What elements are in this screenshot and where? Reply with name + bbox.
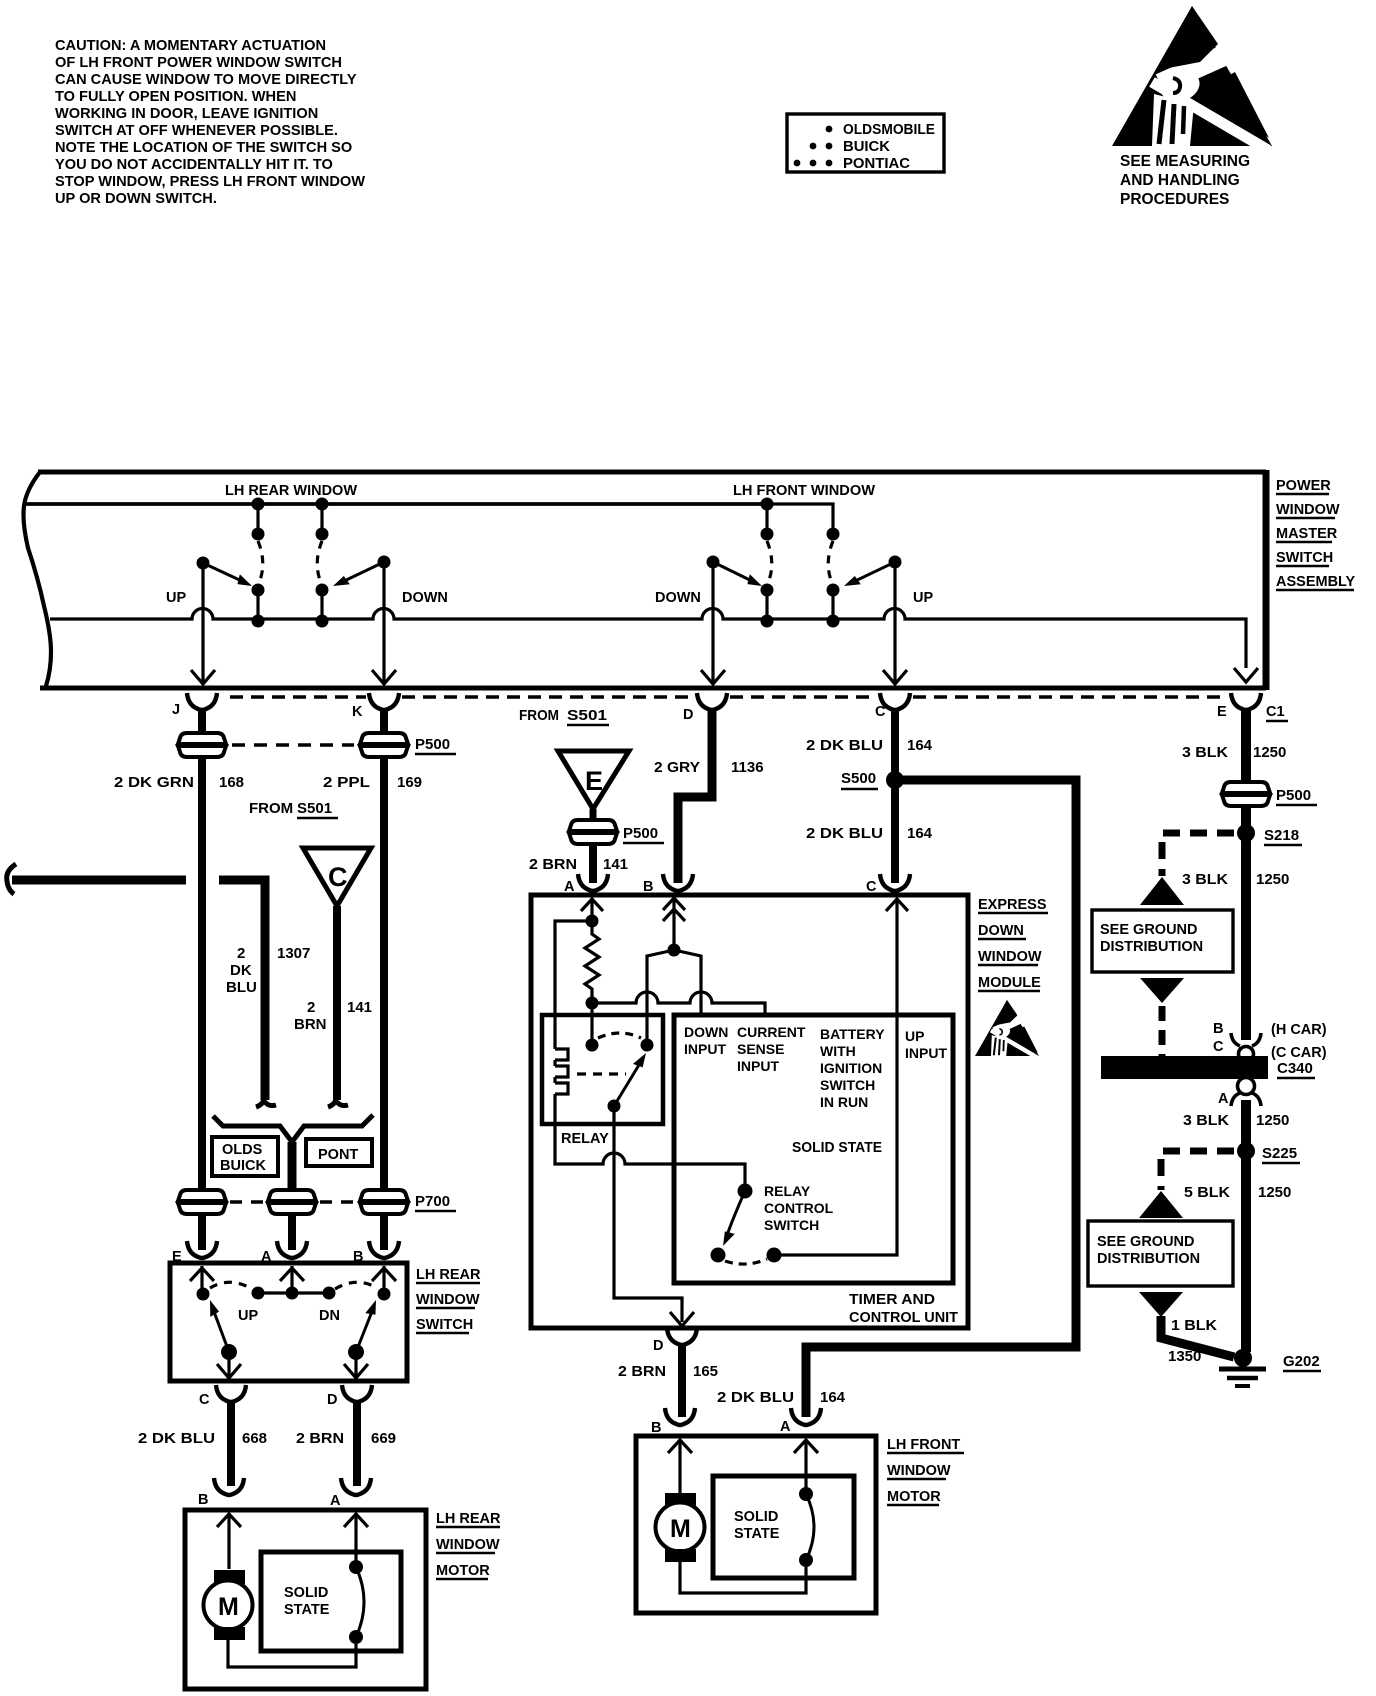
relay travel dashed arc (598, 1033, 641, 1038)
wire 2 PPL (P500 to P700) (380, 757, 388, 1190)
svg-text:1250: 1250 (1256, 1112, 1289, 1129)
front motor internal switch (799, 1487, 814, 1567)
module input arrow B (double) (663, 898, 685, 948)
svg-text:C340: C340 (1277, 1060, 1313, 1077)
svg-text:SENSE: SENSE (737, 1041, 784, 1057)
continuation triangle (to ground distribution 1) (1140, 877, 1184, 905)
box label OLDS BUICK (212, 1137, 278, 1176)
svg-text:669: 669 (371, 1430, 396, 1447)
label 2 DK GRN 168 (114, 774, 244, 791)
svg-text:3 BLK: 3 BLK (1182, 744, 1228, 761)
wiper arm D (348, 1298, 380, 1360)
svg-text:S501: S501 (567, 707, 607, 724)
svg-text:WINDOW: WINDOW (416, 1292, 480, 1308)
LH front window motor box (636, 1436, 876, 1613)
svg-text:2 GRY: 2 GRY (654, 759, 700, 776)
LH rear window switch UP contact set (252, 498, 265, 628)
LH rear UP wiper arm (197, 557, 255, 591)
svg-text:INPUT: INPUT (905, 1045, 947, 1061)
connector P700 on A wire (268, 1190, 316, 1214)
svg-text:PONT: PONT (318, 1147, 358, 1163)
label P500 (415, 736, 456, 754)
wire 2 PPL 169 (K to P500) (380, 708, 388, 735)
svg-text:UP OR DOWN SWITCH.: UP OR DOWN SWITCH. (55, 191, 217, 207)
svg-text:G202: G202 (1283, 1353, 1320, 1370)
svg-text:2: 2 (237, 945, 245, 962)
svg-text:EXPRESS: EXPRESS (978, 897, 1047, 913)
svg-text:WINDOW: WINDOW (1276, 502, 1340, 518)
label CURRENT SENSE INPUT (737, 1024, 806, 1074)
LH rear window switch box (170, 1263, 407, 1381)
solid state box (rear motor) (261, 1552, 401, 1651)
continuation triangle (to ground distribution 2) (1139, 1191, 1183, 1218)
front motor input arrow A (794, 1439, 818, 1488)
solid state box (front motor) (713, 1476, 854, 1578)
label C1 (1266, 704, 1288, 721)
svg-text:P500: P500 (415, 736, 450, 753)
svg-text:P700: P700 (415, 1193, 450, 1210)
svg-text:E: E (585, 766, 603, 796)
label B (H CAR) (1213, 1021, 1327, 1038)
rear motor internal switch (349, 1560, 364, 1644)
splice output wire (288, 1142, 297, 1190)
switch input arrow A (280, 1266, 304, 1290)
switch input arrow B (372, 1266, 396, 1290)
svg-text:2 BRN: 2 BRN (618, 1363, 666, 1380)
wire from front UP wiper to terminal C (883, 562, 907, 684)
wire B to relay contact (647, 950, 674, 1045)
lower bus wire with hops (50, 609, 1246, 669)
svg-text:BLU: BLU (226, 979, 257, 996)
svg-text:DN: DN (319, 1308, 340, 1324)
svg-text:P500: P500 (623, 825, 658, 842)
terminal A (rear motor) (341, 1478, 371, 1495)
svg-text:M: M (218, 1593, 239, 1621)
ESD symbol (module) (975, 1000, 1039, 1058)
terminal B (front motor) (665, 1408, 695, 1425)
label FROM S501 (left) (249, 800, 338, 818)
label 3 BLK 1250 (below C340) (1183, 1112, 1289, 1129)
svg-text:CURRENT: CURRENT (737, 1024, 806, 1040)
label 2 DK BLU (1307 wire) (226, 945, 257, 996)
label POWER WINDOW MASTER SWITCH ASSEMBLY (1276, 478, 1356, 590)
wire 141 from triangle C (333, 906, 341, 1100)
label FROM S501 (top middle) (519, 707, 609, 725)
svg-text:SOLID: SOLID (284, 1585, 328, 1601)
connector C340 bulkhead bar (1101, 1056, 1268, 1079)
svg-text:BUICK: BUICK (843, 139, 891, 155)
svg-text:S501: S501 (297, 800, 332, 817)
LH front UP wiper arm (842, 556, 901, 591)
svg-text:(C CAR): (C CAR) (1271, 1045, 1327, 1061)
wire 2 GRY 1136 (D to module B) (678, 708, 712, 883)
svg-text:2 BRN: 2 BRN (529, 856, 577, 873)
front motor return wire (680, 1562, 806, 1593)
wire to switch terminal E (198, 1214, 206, 1250)
connector P500 on K wire (360, 733, 408, 757)
label P500 (right) (1276, 787, 1317, 805)
svg-text:WORKING IN DOOR, LEAVE IGNITIO: WORKING IN DOOR, LEAVE IGNITION (55, 106, 318, 122)
wire 2 BRN 141 to module A (589, 844, 597, 883)
svg-text:BATTERY: BATTERY (820, 1026, 885, 1042)
wire 5 BLK (S225 to ground) (1241, 1151, 1251, 1352)
switch output arrow C (217, 1352, 241, 1378)
svg-text:ASSEMBLY: ASSEMBLY (1276, 574, 1356, 590)
svg-text:C: C (875, 704, 886, 720)
terminal K (369, 693, 399, 710)
svg-text:DK: DK (230, 962, 252, 979)
contact node E (197, 1288, 210, 1301)
svg-text:164: 164 (907, 737, 933, 754)
svg-text:2 PPL: 2 PPL (323, 774, 370, 791)
connector P500 on J wire (178, 733, 226, 757)
connector P500 on 141 wire (569, 820, 617, 844)
svg-text:BUICK: BUICK (220, 1158, 266, 1174)
wire P500 to S218 (1241, 806, 1251, 1040)
svg-text:OLDS: OLDS (222, 1142, 263, 1158)
svg-text:OF LH FRONT POWER WINDOW SWITC: OF LH FRONT POWER WINDOW SWITCH (55, 55, 342, 71)
relay box (542, 1015, 663, 1124)
svg-text:STOP WINDOW, PRESS LH FRONT WI: STOP WINDOW, PRESS LH FRONT WINDOW (55, 174, 365, 190)
wire end hook 141 (328, 1094, 348, 1107)
svg-text:P500: P500 (1276, 787, 1311, 804)
current sense wire with hops (592, 992, 765, 1015)
label LH REAR WINDOW SWITCH (416, 1267, 481, 1333)
wire 2 BRN 165 (678, 1343, 686, 1417)
svg-text:2 DK BLU: 2 DK BLU (717, 1389, 794, 1406)
motor input arrow B (217, 1513, 241, 1569)
svg-text:IN RUN: IN RUN (820, 1094, 868, 1110)
feed wire with arrow (left) (7, 864, 186, 894)
svg-text:OLDSMOBILE: OLDSMOBILE (843, 122, 935, 138)
terminal D (rear switch out) (342, 1385, 372, 1402)
label 2 DK BLU 164 (lower) (806, 825, 933, 842)
svg-text:J: J (172, 702, 180, 718)
svg-text:PROCEDURES: PROCEDURES (1120, 191, 1229, 208)
svg-text:SWITCH AT OFF WHENEVER POSSIBL: SWITCH AT OFF WHENEVER POSSIBLE. (55, 123, 338, 139)
label 2 BRN 165 (618, 1363, 718, 1380)
jumper wire LH front (767, 504, 833, 532)
svg-text:3 BLK: 3 BLK (1182, 871, 1228, 888)
svg-text:1307: 1307 (277, 945, 310, 962)
svg-text:2: 2 (307, 999, 315, 1016)
svg-text:UP: UP (913, 590, 933, 606)
svg-text:UP: UP (166, 590, 186, 606)
svg-text:A: A (1218, 1091, 1229, 1107)
svg-text:1136: 1136 (731, 759, 764, 776)
svg-text:CONTROL: CONTROL (764, 1200, 834, 1216)
power window master switch assembly box (24, 470, 1267, 690)
svg-text:LH FRONT WINDOW: LH FRONT WINDOW (733, 483, 875, 499)
triangle connector C (303, 848, 371, 906)
wire 1307 horizontal segment (219, 880, 265, 1100)
svg-text:AND HANDLING: AND HANDLING (1120, 172, 1240, 189)
label 2 BRN 669 (296, 1430, 396, 1447)
terminal D (module out) (667, 1328, 697, 1345)
splice S225 (1237, 1142, 1300, 1163)
svg-text:2 BRN: 2 BRN (296, 1430, 344, 1447)
dashed branch wire from S225 (1161, 1151, 1234, 1190)
see ground distribution box 2 (1088, 1221, 1233, 1286)
front motor input arrow B (668, 1439, 692, 1493)
label 2 GRY 1136 (654, 759, 764, 776)
terminal B (module) (663, 874, 693, 891)
svg-text:5 BLK: 5 BLK (1184, 1184, 1230, 1201)
svg-text:164: 164 (820, 1389, 846, 1406)
resistor (current sense shunt) (585, 921, 599, 1003)
svg-text:WITH: WITH (820, 1043, 856, 1059)
express down window module box (531, 895, 968, 1328)
wire relay coil to control switch (555, 1124, 745, 1184)
svg-text:1250: 1250 (1256, 871, 1289, 888)
caution note text (55, 38, 365, 207)
svg-text:2 DK BLU: 2 DK BLU (806, 737, 883, 754)
svg-text:LH REAR: LH REAR (436, 1511, 501, 1527)
svg-text:D: D (653, 1338, 663, 1354)
svg-text:SEE MEASURING: SEE MEASURING (1120, 153, 1250, 170)
legend box with make dots (787, 114, 944, 172)
wire from triangle E to P500 (590, 809, 597, 822)
solid state inner box (674, 1015, 953, 1283)
LH rear DOWN wiper arm (331, 556, 390, 591)
relay coil dashed link (577, 1072, 626, 1075)
svg-text:2 DK BLU: 2 DK BLU (806, 825, 883, 842)
terminal E (rear switch) (187, 1241, 217, 1258)
svg-text:1250: 1250 (1253, 744, 1286, 761)
LH rear window motor box (185, 1510, 426, 1689)
module input arrow A (581, 898, 603, 921)
svg-text:K: K (352, 704, 363, 720)
svg-text:169: 169 (397, 774, 422, 791)
see ground distribution box 1 (1092, 910, 1233, 972)
switch output arrow D (344, 1352, 368, 1378)
connector P500 on ground wire (1222, 782, 1270, 806)
svg-text:S218: S218 (1264, 827, 1299, 844)
svg-text:WINDOW: WINDOW (978, 949, 1042, 965)
label 3 BLK 1250 (branch) (1182, 871, 1289, 888)
wire 2 DK BLU 164 (C to module C) (891, 708, 899, 883)
splice brace joining 1307 and 141 (213, 1115, 373, 1142)
svg-text:C: C (1213, 1039, 1224, 1055)
LH front DOWN wiper arm (707, 556, 765, 591)
wire resistor to relay fixed contact (590, 1003, 593, 1045)
svg-text:MOTOR: MOTOR (887, 1489, 941, 1505)
svg-text:C1: C1 (1266, 704, 1285, 720)
splice S218 (1237, 824, 1302, 845)
wire S500 branch to front motor A (806, 780, 1076, 1417)
dashed branch wire from S218 (1162, 833, 1234, 876)
svg-text:DOWN: DOWN (655, 590, 701, 606)
svg-text:LH FRONT: LH FRONT (887, 1437, 960, 1453)
svg-text:SWITCH: SWITCH (416, 1317, 473, 1333)
svg-text:INPUT: INPUT (737, 1058, 779, 1074)
svg-text:2 DK BLU: 2 DK BLU (138, 1430, 215, 1447)
label BATTERY WITH IGNITION SWITCH IN RUN (820, 1026, 885, 1110)
wire A to relay coil (555, 921, 592, 1049)
relay coil (555, 1049, 568, 1124)
terminal E (1231, 693, 1261, 710)
svg-text:164: 164 (907, 825, 933, 842)
label 5 BLK 1250 (1184, 1184, 1291, 1201)
svg-text:1 BLK: 1 BLK (1171, 1317, 1217, 1334)
connector P700 on B wire (360, 1190, 408, 1214)
svg-text:165: 165 (693, 1363, 718, 1380)
svg-text:CAUTION: A MOMENTARY ACTUATION: CAUTION: A MOMENTARY ACTUATION (55, 38, 326, 54)
svg-text:PONTIAC: PONTIAC (843, 156, 911, 172)
relay moving contact (641, 1039, 654, 1052)
svg-text:D: D (683, 707, 693, 723)
svg-text:SOLID: SOLID (734, 1509, 778, 1525)
svg-text:E: E (1217, 704, 1227, 720)
wire end hook 1307 (256, 1094, 276, 1107)
svg-text:YOU DO NOT ACCIDENTALLY HIT IT: YOU DO NOT ACCIDENTALLY HIT IT. TO (55, 157, 333, 173)
arrow on bus wire to terminal E (1234, 668, 1258, 682)
label 2 BRN 141 (module A) (529, 856, 628, 873)
wire 2 DK GRN 168 (J to P500) (198, 708, 206, 735)
svg-text:SEE GROUND: SEE GROUND (1100, 922, 1198, 938)
LH rear window switch DOWN contact set (316, 498, 329, 628)
rear motor return wire (228, 1640, 356, 1667)
dashed links P700 (230, 1200, 356, 1204)
ESD warning symbol (1112, 6, 1272, 150)
motor M (front) (656, 1493, 705, 1562)
terminal A (rear switch) (277, 1241, 307, 1258)
dashed wire to C340 (1159, 1006, 1166, 1056)
dashed link between P500 halves (232, 743, 354, 747)
ESD warning caption (1120, 153, 1250, 208)
wire 2 DK BLU 668 (227, 1400, 235, 1486)
svg-text:CONTROL UNIT: CONTROL UNIT (849, 1310, 958, 1326)
svg-text:SEE GROUND: SEE GROUND (1097, 1234, 1195, 1250)
svg-text:NOTE THE LOCATION OF THE SWITC: NOTE THE LOCATION OF THE SWITCH SO (55, 140, 352, 156)
wire 2 BRN 669 (353, 1400, 361, 1486)
svg-text:BRN: BRN (294, 1016, 327, 1033)
LH front window switch UP contact set (827, 528, 840, 628)
svg-text:668: 668 (242, 1430, 267, 1447)
label 2 PPL 169 (323, 774, 422, 791)
svg-text:141: 141 (347, 999, 372, 1016)
relay armature (608, 1050, 650, 1112)
node below resistor (586, 997, 599, 1010)
svg-text:A: A (330, 1493, 341, 1509)
svg-text:B: B (1213, 1021, 1223, 1037)
wire 3 BLK 1250 (C340 to S225) (1241, 1100, 1251, 1160)
up input wire (module C internal) (781, 921, 897, 1255)
label 3 BLK 1250 (upper) (1182, 744, 1286, 761)
svg-text:FROM: FROM (249, 800, 293, 817)
svg-text:DOWN: DOWN (402, 590, 448, 606)
terminal C (module) (880, 874, 910, 891)
label LH REAR WINDOW MOTOR (436, 1511, 501, 1579)
wire to switch terminal A (288, 1214, 296, 1250)
ground G202 (1219, 1349, 1266, 1386)
wire from UP wiper to terminal J (191, 563, 215, 684)
C340 terminal symbols on ground wire (1231, 1033, 1261, 1106)
wiper arm C (205, 1298, 237, 1360)
node A junction (586, 915, 599, 928)
svg-text:UP: UP (238, 1308, 258, 1324)
terminal C (rear switch out) (216, 1385, 246, 1402)
label EXPRESS DOWN WINDOW MODULE (978, 897, 1048, 991)
terminal D (697, 693, 727, 710)
label P500 (middle) (623, 825, 664, 843)
motor input arrow A (344, 1513, 368, 1562)
svg-text:168: 168 (219, 774, 244, 791)
wire 3 BLK 1250 (E to P500) (1241, 708, 1251, 784)
svg-text:MASTER: MASTER (1276, 526, 1338, 542)
module input arrow C (886, 898, 908, 921)
label G202 (1283, 1353, 1321, 1371)
svg-text:TO FULLY OPEN POSITION. WHEN: TO FULLY OPEN POSITION. WHEN (55, 89, 296, 105)
terminal C (880, 693, 910, 710)
svg-text:3 BLK: 3 BLK (1183, 1112, 1229, 1129)
svg-text:DISTRIBUTION: DISTRIBUTION (1100, 939, 1203, 955)
wire 2 DK GRN (P500 to P700) (198, 757, 206, 1190)
label RELAY CONTROL SWITCH (764, 1183, 834, 1233)
terminal B (rear switch) (369, 1241, 399, 1258)
label UP INPUT (905, 1028, 947, 1061)
svg-text:POWER: POWER (1276, 478, 1331, 494)
svg-text:RELAY: RELAY (764, 1183, 811, 1199)
svg-text:M: M (670, 1515, 691, 1543)
svg-text:DOWN: DOWN (684, 1024, 728, 1040)
relay control switch (711, 1184, 782, 1265)
dashed travel arc E-UP (210, 1282, 252, 1289)
svg-text:WINDOW: WINDOW (887, 1463, 951, 1479)
svg-text:LH REAR: LH REAR (416, 1267, 481, 1283)
label DOWN INPUT (684, 1024, 728, 1057)
label 2 DK BLU 164 (upper) (806, 737, 933, 754)
svg-text:SOLID STATE: SOLID STATE (792, 1140, 882, 1156)
svg-text:CAN CAUSE WINDOW TO MOVE DIREC: CAN CAUSE WINDOW TO MOVE DIRECTLY (55, 72, 357, 88)
label SOLID STATE (front) (734, 1509, 780, 1542)
wire to switch terminal B (380, 1214, 388, 1250)
label LH FRONT WINDOW MOTOR (887, 1437, 964, 1505)
splice S500 (841, 770, 904, 789)
svg-text:FROM: FROM (519, 707, 559, 724)
svg-text:IGNITION: IGNITION (820, 1060, 882, 1076)
label P700 (415, 1193, 456, 1211)
label 2 DK BLU 668 (138, 1430, 267, 1447)
svg-text:STATE: STATE (284, 1602, 330, 1618)
continuation triangle (from ground distribution 1) (1140, 978, 1184, 1003)
svg-text:C: C (328, 862, 348, 892)
svg-text:TIMER AND: TIMER AND (849, 1292, 935, 1308)
svg-text:D: D (327, 1392, 337, 1408)
label 2 DK BLU 164 (front motor) (717, 1389, 846, 1406)
relay armature output wire to D (614, 1106, 682, 1322)
supply bus wire (upper horizontal) (24, 502, 767, 506)
svg-text:A: A (780, 1419, 791, 1435)
svg-text:DISTRIBUTION: DISTRIBUTION (1097, 1251, 1200, 1267)
svg-text:SWITCH: SWITCH (820, 1077, 875, 1093)
triangle connector E (558, 751, 629, 809)
motor M (rear) (204, 1570, 253, 1640)
label C (C CAR) (1213, 1039, 1327, 1061)
svg-text:2 DK GRN: 2 DK GRN (114, 774, 194, 791)
terminal J (187, 693, 217, 710)
connector P700 on E wire (178, 1190, 226, 1214)
wire from DOWN wiper to terminal K (372, 562, 396, 684)
terminal A (module) (578, 874, 608, 891)
wire from front DOWN wiper to terminal D (701, 562, 725, 684)
svg-text:STATE: STATE (734, 1526, 780, 1542)
svg-text:DOWN: DOWN (978, 923, 1024, 939)
svg-text:141: 141 (603, 856, 628, 873)
svg-text:1250: 1250 (1258, 1184, 1291, 1201)
wire 1 BLK 1350 to ground (1161, 1316, 1234, 1357)
svg-text:SWITCH: SWITCH (764, 1217, 819, 1233)
